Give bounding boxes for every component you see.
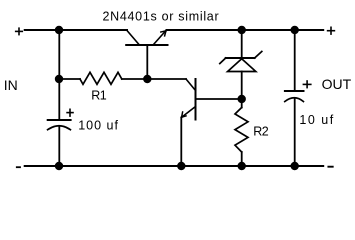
resistor R1 xyxy=(80,72,122,84)
node: R1 left junction xyxy=(55,75,63,83)
wire: capacitor C1 to bottom rail xyxy=(58,126,60,166)
terminal + (output plus) xyxy=(328,27,335,34)
wire: R1 to Q1 base node xyxy=(122,78,148,80)
wire: output vertical upper xyxy=(294,30,296,91)
svg-text:100 uf: 100 uf xyxy=(78,119,119,133)
svg-text:OUT: OUT xyxy=(322,76,352,92)
capacitor C2 xyxy=(285,91,304,102)
wire: Q1 base node to Q2 collector xyxy=(147,78,186,80)
svg-text:10 uf: 10 uf xyxy=(299,113,334,127)
capacitor C1 plus sign xyxy=(67,109,73,116)
wire: bottom rail xyxy=(25,165,324,167)
svg-text:R2: R2 xyxy=(253,125,269,139)
transistor Q2 xyxy=(181,79,195,120)
svg-text:R1: R1 xyxy=(91,89,107,103)
wire: top rail left segment xyxy=(25,29,127,31)
node: input top junction xyxy=(55,26,63,34)
terminal + (input plus) xyxy=(16,28,23,34)
node: output top junction xyxy=(291,26,299,34)
node: Q1 base junction xyxy=(143,75,151,83)
wire: R2 to bottom rail xyxy=(241,152,243,166)
svg-text:2N4401s or similar: 2N4401s or similar xyxy=(103,10,220,24)
svg-text:IN: IN xyxy=(4,77,18,93)
transistor Q1 xyxy=(126,31,167,46)
node: input bottom junction xyxy=(55,162,63,170)
resistor R2 xyxy=(235,108,248,153)
wire: node to R1 xyxy=(59,78,80,80)
zener diode D1 xyxy=(220,52,262,72)
wire: zener bottom lead xyxy=(241,72,243,100)
wire: Q2 base to zener node xyxy=(196,98,242,100)
wire: node to R2 xyxy=(241,99,243,108)
terminal - (input minus) xyxy=(17,166,20,168)
wire: zener top lead xyxy=(241,30,243,58)
capacitor C1 xyxy=(48,120,71,130)
wire: Q2 collector diagonal xyxy=(186,79,196,91)
node: zener top junction xyxy=(238,26,246,34)
node: R2 bottom junction xyxy=(238,162,246,170)
wire: top rail right segment xyxy=(167,29,324,31)
terminal - (output minus) xyxy=(328,166,332,168)
node: Q2 emitter bottom junction xyxy=(177,162,185,170)
wire: input vertical to capacitor xyxy=(58,79,60,120)
node: output bottom junction xyxy=(291,162,299,170)
wire: Q2 emitter to bottom rail xyxy=(180,118,182,167)
wire: input vertical upper xyxy=(58,30,60,79)
node: zener / R2 / Q2 base junction xyxy=(238,95,246,103)
wire: Q1 base lead xyxy=(146,45,148,79)
wire: capacitor C2 to bottom rail xyxy=(294,98,296,166)
capacitor C2 plus sign xyxy=(303,81,310,88)
